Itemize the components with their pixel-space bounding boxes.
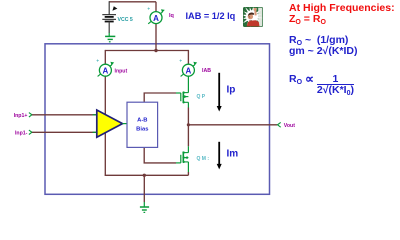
wire: inner loop bottom rail bbox=[105, 174, 188, 177]
svg-text:A: A bbox=[153, 14, 159, 23]
svg-text:Q P: Q P bbox=[197, 94, 206, 100]
outer schematic border box bbox=[45, 44, 270, 195]
svg-text:+: + bbox=[179, 59, 182, 65]
wire: inner loop top rail bbox=[105, 50, 188, 52]
wire: ground stem bbox=[143, 175, 145, 202]
wire: right branch upper segment bbox=[187, 50, 189, 64]
svg-text:Ip: Ip bbox=[227, 84, 236, 95]
wire: left branch lower segment (passes behind op-amp) bbox=[104, 76, 106, 175]
ammeter IAB bbox=[179, 59, 197, 77]
svg-text:A: A bbox=[186, 66, 192, 75]
wire: QM drain from output node bbox=[187, 146, 189, 152]
svg-text:Iq: Iq bbox=[169, 13, 174, 19]
ground 0 at bottom bbox=[140, 202, 149, 212]
svg-text:Bias: Bias bbox=[136, 127, 148, 133]
clipart icon (head-slap) bbox=[240, 5, 264, 29]
port Vout connector bbox=[278, 122, 281, 127]
battery V1 polarity arrow bbox=[112, 6, 117, 11]
current arrow Ip bbox=[218, 73, 220, 108]
wire: battery negative stem bbox=[108, 22, 110, 34]
svg-text:Vout: Vout bbox=[284, 123, 295, 129]
wire: QM gate from bias box bbox=[144, 148, 176, 163]
wire: Iq ammeter top pin bbox=[155, 2, 157, 12]
current arrow Im bbox=[218, 142, 220, 165]
wire: QM source to bottom rail bbox=[187, 162, 189, 172]
wire: op-amp +input bbox=[32, 114, 97, 116]
junction: Iq rail meets inner loop top bbox=[154, 49, 157, 52]
wire: battery positive stem bbox=[108, 1, 110, 14]
op-amp U1 bbox=[97, 110, 123, 137]
svg-text:+: + bbox=[96, 59, 99, 65]
wire: op-amp output to bias box bbox=[123, 123, 128, 125]
transistor QM bbox=[181, 152, 189, 163]
battery VCC 5 bbox=[102, 15, 116, 22]
svg-text:Im: Im bbox=[227, 148, 239, 159]
svg-text:A-B: A-B bbox=[137, 118, 147, 124]
wire: Iq ammeter bottom pin down into box bbox=[155, 24, 157, 51]
svg-text:Input: Input bbox=[115, 68, 128, 74]
right-side text block bbox=[289, 3, 395, 13]
transistor QP bbox=[181, 92, 189, 102]
svg-text:VCC 5: VCC 5 bbox=[118, 17, 133, 23]
wire: IAB to QP drain bbox=[187, 76, 189, 92]
svg-text:IAB: IAB bbox=[202, 68, 211, 74]
wire: VCC top rail to Iq ammeter bbox=[109, 1, 156, 3]
wire: QP source down to output node bbox=[187, 102, 189, 107]
wire: op-amp -input bbox=[32, 131, 97, 133]
junction: output node bbox=[187, 123, 190, 126]
svg-text:+: + bbox=[147, 6, 150, 12]
formula IAB = 1/2 Iq bbox=[186, 11, 236, 21]
junction: ground tap bbox=[143, 174, 146, 177]
port Inp1+ connector bbox=[29, 113, 32, 117]
svg-text:Inp1+: Inp1+ bbox=[14, 113, 28, 119]
svg-text:Q M :: Q M : bbox=[197, 156, 210, 162]
port Inp1- connector bbox=[29, 130, 32, 134]
ground 0 under battery bbox=[105, 33, 115, 42]
svg-text:Inp1-: Inp1- bbox=[15, 130, 28, 136]
wire: left branch upper segment bbox=[104, 50, 106, 64]
wire: QP gate from bias box bbox=[144, 93, 176, 102]
ammeter Input bbox=[96, 59, 114, 77]
svg-text:A: A bbox=[103, 66, 109, 75]
ammeter Iq bbox=[147, 6, 165, 23]
block A-B Bias bbox=[127, 102, 158, 147]
wire: Vout line bbox=[188, 124, 277, 126]
